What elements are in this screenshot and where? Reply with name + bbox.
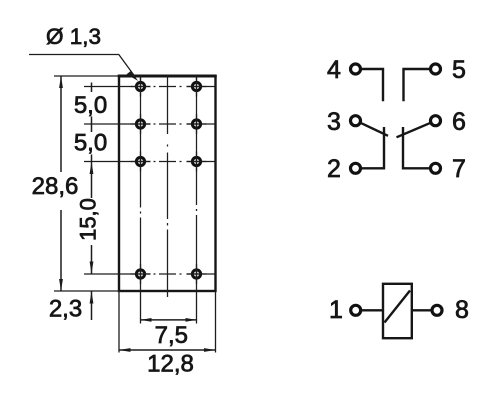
dimension stack line 5,0 upper xyxy=(91,83,93,93)
hole A2 xyxy=(131,114,151,134)
wire pin 5 to NO contact pole 2 xyxy=(404,69,430,101)
dimension 7,5 line xyxy=(141,319,197,321)
dimension 28,6 arrow down xyxy=(59,279,63,291)
hole A4 xyxy=(131,264,151,284)
centerline row 3 xyxy=(119,161,216,163)
dimension 7,5 arrow left xyxy=(141,318,152,322)
hole B1 xyxy=(187,77,207,97)
hole B2 xyxy=(187,114,207,134)
pin 2 terminal xyxy=(351,163,361,173)
dimension 2,3 arrow up from below xyxy=(90,291,94,304)
pin 5 terminal xyxy=(431,64,441,74)
dimension 15,0 arrow down xyxy=(90,262,94,275)
footprint top edge emphasis xyxy=(118,74,217,77)
coil K1 diagonal xyxy=(385,291,411,323)
extension line row 1 xyxy=(84,86,119,88)
extension column 2 below xyxy=(196,291,198,324)
hole B3 xyxy=(187,152,207,172)
hole A1 xyxy=(131,77,151,97)
dimension 7,5 arrow right xyxy=(186,318,197,322)
dimension stack line below row2 xyxy=(91,155,93,162)
hole B4 xyxy=(187,264,207,284)
dimension 12,8 arrow right xyxy=(204,348,216,352)
extension line top edge xyxy=(54,75,119,77)
wire pin 7 to pivot pole 2 xyxy=(403,127,429,168)
centerline column 1 xyxy=(140,76,142,291)
svg-text:Ø 1,3: Ø 1,3 xyxy=(46,24,101,49)
hole A3 xyxy=(131,152,151,172)
extension right edge below xyxy=(215,291,217,353)
footprint outline xyxy=(119,76,216,291)
extension line bottom edge xyxy=(54,290,119,292)
contact blade pole 1 xyxy=(361,123,388,136)
pin 7 terminal xyxy=(431,163,441,173)
dimension 15,0 arrow up xyxy=(90,162,94,175)
dimension 28,6 arrow up xyxy=(59,76,63,88)
dimension 12,8 line xyxy=(119,349,216,351)
svg-text:7,5: 7,5 xyxy=(155,322,188,349)
leader arrowhead xyxy=(127,71,139,81)
centerline row 1 xyxy=(119,86,216,88)
wire pin 1 to coil xyxy=(362,309,383,311)
svg-text:6: 6 xyxy=(452,108,466,136)
extension line row 2 xyxy=(84,123,119,125)
svg-text:1: 1 xyxy=(329,296,343,324)
dimension 12,8 arrow left xyxy=(119,348,131,352)
svg-text:3: 3 xyxy=(327,108,341,136)
pin 4 terminal xyxy=(351,64,361,74)
svg-text:8: 8 xyxy=(455,296,469,324)
centerline middle vertical xyxy=(167,76,169,297)
extension line row 4 xyxy=(84,273,119,275)
extension line row 3 xyxy=(84,161,119,163)
dimension 28,6 line xyxy=(60,76,62,172)
wire coil to pin 8 xyxy=(412,309,431,311)
svg-text:5,0: 5,0 xyxy=(74,92,107,119)
wire pin 4 to NO contact pole 1 xyxy=(362,69,383,101)
svg-text:7: 7 xyxy=(452,155,466,183)
dimension stack line 5,0 between xyxy=(91,117,93,133)
svg-text:15,0: 15,0 xyxy=(75,198,100,241)
svg-text:28,6: 28,6 xyxy=(32,173,79,200)
pin 3 terminal xyxy=(351,116,361,126)
contact blade pole 2 xyxy=(397,123,430,137)
svg-text:5,0: 5,0 xyxy=(74,130,107,157)
svg-text:4: 4 xyxy=(327,56,341,84)
pin 6 terminal xyxy=(431,116,441,126)
coil K1 body xyxy=(383,284,412,338)
wire pin 2 to pivot pole 1 xyxy=(362,127,384,168)
extension left edge below xyxy=(118,291,120,353)
pin 1 terminal xyxy=(351,305,361,315)
centerline column 2 xyxy=(196,76,198,291)
centerline row 2 xyxy=(119,123,216,125)
pin 8 terminal xyxy=(432,305,442,315)
svg-text:2: 2 xyxy=(327,155,341,183)
svg-text:2,3: 2,3 xyxy=(49,296,82,323)
leader line diameter xyxy=(29,55,136,78)
centerline row 4 xyxy=(119,273,216,275)
extension column 1 below xyxy=(140,291,142,324)
svg-text:12,8: 12,8 xyxy=(147,351,194,378)
svg-text:5: 5 xyxy=(452,56,466,84)
